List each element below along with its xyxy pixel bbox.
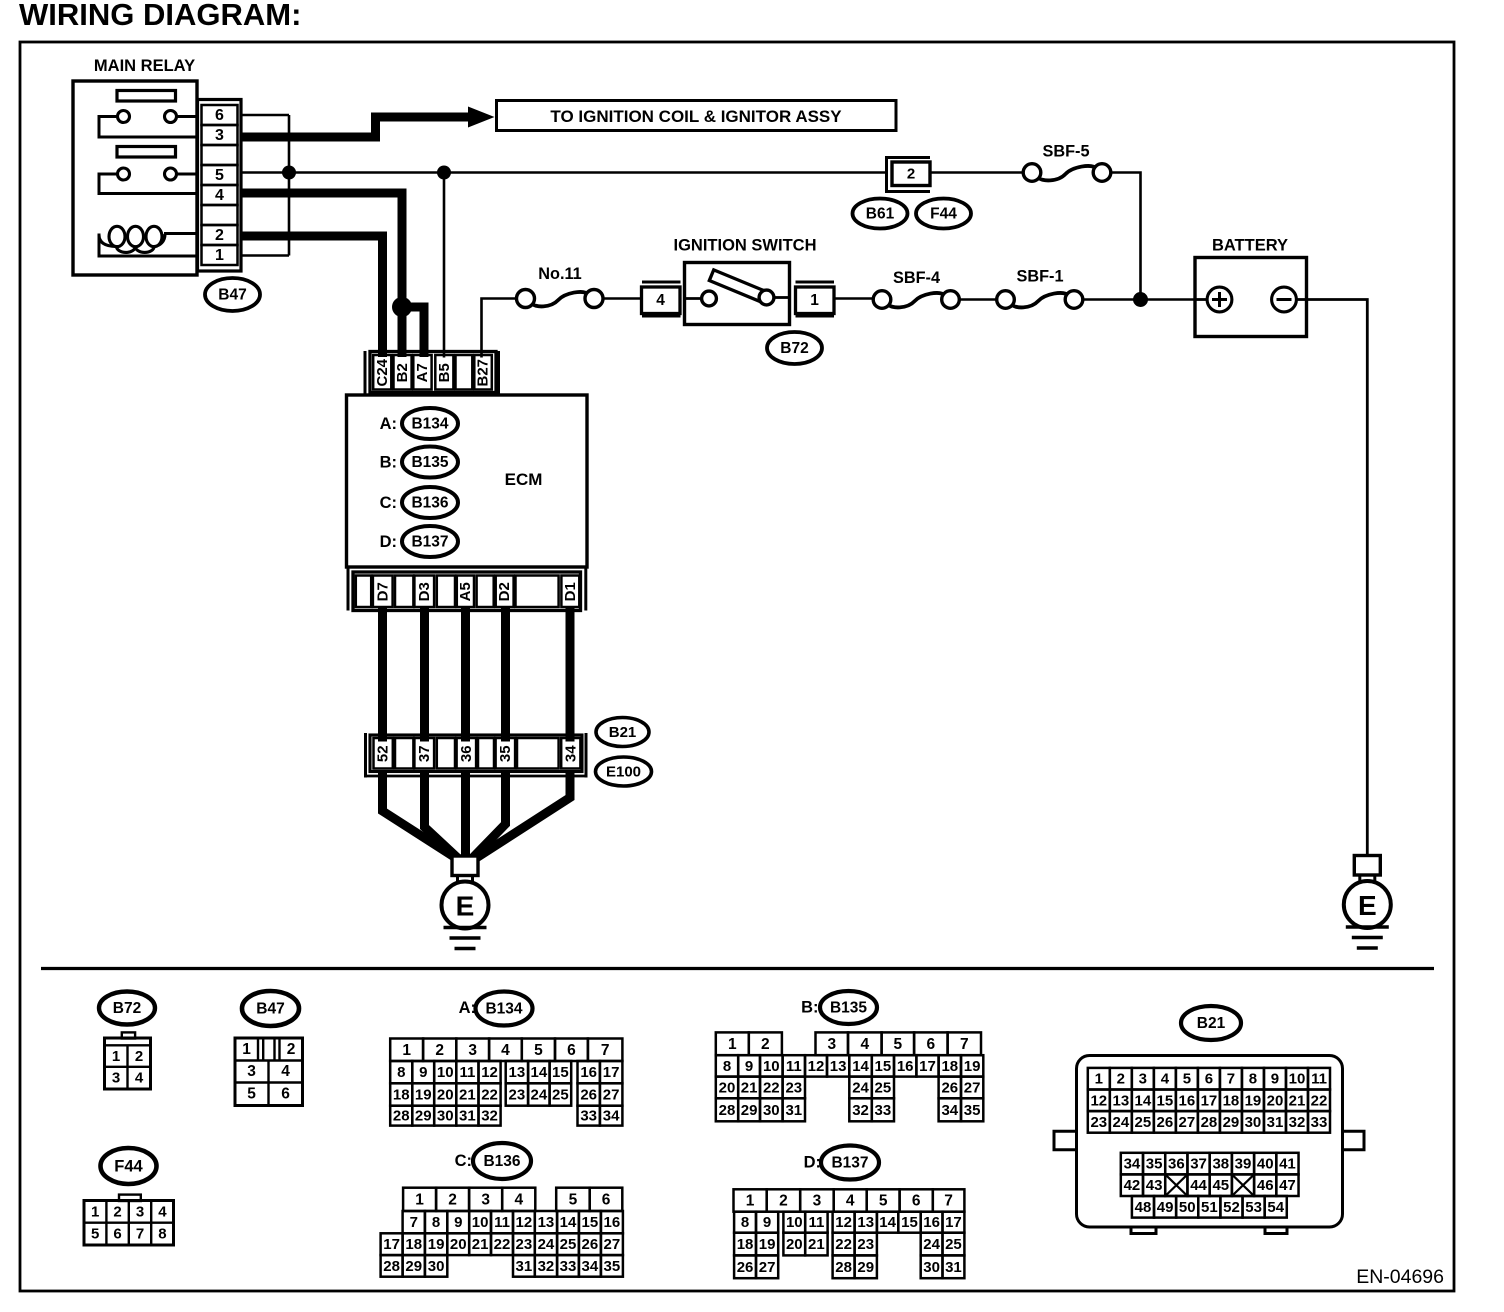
- pinout B72 connector: [105, 1032, 151, 1089]
- svg-text:52: 52: [1223, 1199, 1240, 1216]
- svg-text:6: 6: [602, 1191, 611, 1208]
- ECM connector ref B:B135: [380, 447, 458, 478]
- ignition switch B72 body: [685, 263, 790, 325]
- svg-text:52: 52: [375, 745, 392, 762]
- to-ignition-coil box: [497, 101, 897, 131]
- svg-text:33: 33: [560, 1258, 577, 1275]
- svg-text:27: 27: [759, 1259, 776, 1276]
- svg-text:SBF-5: SBF-5: [1042, 143, 1089, 161]
- svg-text:17: 17: [1201, 1092, 1218, 1109]
- svg-text:A:: A:: [380, 415, 397, 433]
- svg-text:20: 20: [437, 1087, 454, 1104]
- svg-text:3: 3: [481, 1191, 490, 1208]
- svg-text:27: 27: [604, 1236, 621, 1253]
- svg-text:ECM: ECM: [505, 470, 543, 489]
- ECM connector ref D:B137: [380, 526, 458, 557]
- svg-text:B47: B47: [256, 1001, 284, 1018]
- svg-text:20: 20: [1267, 1092, 1284, 1109]
- svg-text:4: 4: [158, 1203, 167, 1220]
- svg-text:6: 6: [215, 107, 224, 124]
- svg-text:33: 33: [580, 1108, 597, 1125]
- svg-text:33: 33: [1311, 1114, 1328, 1131]
- svg-text:7: 7: [1227, 1071, 1235, 1088]
- svg-text:25: 25: [552, 1087, 569, 1104]
- svg-text:MAIN RELAY: MAIN RELAY: [94, 57, 195, 75]
- svg-text:21: 21: [472, 1236, 489, 1253]
- svg-text:2: 2: [1117, 1071, 1125, 1088]
- svg-text:4: 4: [135, 1070, 144, 1087]
- ground wire 37: [425, 770, 462, 861]
- wire ECM pin to ground connector 1: [378, 607, 387, 742]
- relay contact pair 2: [118, 168, 198, 180]
- svg-text:B21: B21: [609, 724, 637, 741]
- wire SBF-5 down to junction: [1111, 173, 1141, 300]
- svg-text:D3: D3: [416, 582, 433, 601]
- svg-text:29: 29: [857, 1259, 874, 1276]
- svg-text:16: 16: [580, 1064, 597, 1081]
- svg-text:7: 7: [944, 1193, 953, 1210]
- svg-text:7: 7: [136, 1226, 144, 1243]
- ground wire 36: [461, 770, 470, 858]
- fuse SBF-4 label: [893, 269, 940, 287]
- svg-text:F44: F44: [930, 206, 957, 223]
- ground wire 35: [471, 770, 506, 860]
- svg-text:19: 19: [428, 1236, 445, 1253]
- svg-text:14: 14: [852, 1058, 869, 1075]
- ignition switch label: [674, 237, 817, 255]
- svg-text:21: 21: [741, 1079, 758, 1096]
- wire battery minus to ground: [1307, 300, 1368, 855]
- svg-text:B21: B21: [1197, 1015, 1226, 1032]
- wire pin5 long thin: [241, 171, 887, 174]
- connector 1 of ignition switch: [796, 282, 835, 316]
- svg-text:2: 2: [135, 1048, 143, 1065]
- svg-text:22: 22: [494, 1236, 511, 1253]
- pinout label B:B135: [801, 991, 877, 1024]
- svg-text:30: 30: [1245, 1114, 1262, 1131]
- svg-text:6: 6: [567, 1042, 576, 1059]
- svg-text:D:: D:: [804, 1154, 821, 1172]
- svg-text:23: 23: [785, 1079, 802, 1096]
- svg-text:9: 9: [745, 1058, 753, 1075]
- svg-text:5: 5: [569, 1191, 578, 1208]
- svg-text:17: 17: [603, 1064, 620, 1081]
- svg-text:9: 9: [454, 1214, 462, 1231]
- svg-text:34: 34: [562, 745, 579, 762]
- svg-text:24: 24: [531, 1087, 548, 1104]
- svg-text:1: 1: [112, 1048, 120, 1065]
- pinout B:B135 grid: [716, 1032, 984, 1121]
- svg-text:53: 53: [1245, 1199, 1262, 1216]
- svg-text:46: 46: [1257, 1177, 1274, 1194]
- section divider line: [41, 967, 1434, 970]
- svg-text:21: 21: [808, 1236, 825, 1253]
- svg-text:28: 28: [383, 1258, 400, 1275]
- svg-text:14: 14: [1135, 1092, 1152, 1109]
- svg-text:34: 34: [582, 1258, 599, 1275]
- svg-text:2: 2: [287, 1041, 296, 1058]
- svg-text:8: 8: [1249, 1071, 1257, 1088]
- wire ECM pin to ground connector 2: [420, 607, 429, 742]
- connector 2 box (B61/F44): [887, 158, 931, 192]
- svg-text:13: 13: [1112, 1092, 1129, 1109]
- connector ellipse E100: [596, 757, 652, 786]
- main relay label: [94, 57, 195, 75]
- pinout B21 top grid: [1088, 1068, 1330, 1133]
- main relay K1 box: [73, 81, 197, 275]
- svg-text:B47: B47: [218, 287, 246, 304]
- pinout B21 housing: [1054, 1056, 1364, 1234]
- svg-text:24: 24: [852, 1079, 869, 1096]
- svg-text:10: 10: [437, 1064, 454, 1081]
- svg-text:26: 26: [582, 1236, 599, 1253]
- pinout A:B134 grid: [390, 1039, 622, 1126]
- svg-text:11: 11: [494, 1214, 510, 1231]
- svg-text:D2: D2: [496, 582, 513, 601]
- svg-text:F44: F44: [114, 1158, 143, 1176]
- svg-text:12: 12: [835, 1214, 852, 1231]
- svg-text:B:: B:: [380, 454, 397, 472]
- svg-text:E100: E100: [606, 764, 641, 781]
- junction dot pin4 branch: [392, 297, 412, 317]
- svg-text:44: 44: [1190, 1177, 1207, 1194]
- fuse SBF-1 label: [1016, 268, 1063, 286]
- svg-text:24: 24: [1112, 1114, 1129, 1131]
- svg-text:2: 2: [215, 227, 224, 244]
- svg-text:39: 39: [1235, 1156, 1252, 1173]
- svg-text:13: 13: [538, 1214, 555, 1231]
- svg-text:25: 25: [875, 1079, 892, 1096]
- svg-text:9: 9: [763, 1214, 771, 1231]
- svg-text:51: 51: [1201, 1199, 1218, 1216]
- svg-text:5: 5: [215, 167, 224, 184]
- svg-text:3: 3: [112, 1070, 120, 1087]
- wire pin6-pin1 vertical link: [288, 115, 291, 256]
- junction dot battery feed: [1133, 292, 1148, 307]
- svg-text:E: E: [1358, 890, 1377, 921]
- svg-text:25: 25: [560, 1236, 577, 1253]
- relay contact 1 wire to pin 3: [99, 117, 197, 138]
- svg-text:C24: C24: [374, 358, 391, 386]
- svg-text:B137: B137: [411, 534, 448, 551]
- battery label: [1212, 237, 1288, 255]
- svg-text:B72: B72: [780, 340, 808, 357]
- wire SBF-1 to battery: [1083, 298, 1196, 301]
- svg-text:15: 15: [901, 1214, 918, 1231]
- svg-text:2: 2: [448, 1191, 457, 1208]
- relay coil: [99, 226, 197, 256]
- wire ECM pin to ground connector 3: [461, 607, 470, 742]
- svg-text:15: 15: [582, 1214, 599, 1231]
- svg-text:19: 19: [415, 1087, 432, 1104]
- svg-text:10: 10: [763, 1058, 780, 1075]
- svg-text:23: 23: [857, 1236, 874, 1253]
- svg-text:4: 4: [1161, 1071, 1170, 1088]
- svg-text:4: 4: [656, 292, 665, 309]
- svg-text:4: 4: [281, 1063, 290, 1080]
- svg-text:3: 3: [136, 1203, 144, 1220]
- svg-text:2: 2: [435, 1042, 444, 1059]
- connector 4 of ignition switch: [642, 282, 681, 316]
- svg-text:27: 27: [964, 1079, 981, 1096]
- svg-text:49: 49: [1157, 1199, 1174, 1216]
- svg-text:11: 11: [459, 1064, 475, 1081]
- svg-text:14: 14: [879, 1214, 896, 1231]
- svg-text:28: 28: [719, 1102, 736, 1119]
- svg-text:12: 12: [1090, 1092, 1107, 1109]
- svg-text:3: 3: [468, 1042, 477, 1059]
- wire pin1: [241, 254, 289, 257]
- svg-text:36: 36: [458, 745, 475, 762]
- svg-text:C:: C:: [380, 494, 397, 512]
- svg-text:34: 34: [603, 1108, 620, 1125]
- svg-text:A:: A:: [459, 999, 476, 1017]
- svg-text:B27: B27: [475, 359, 492, 387]
- svg-text:9: 9: [419, 1064, 427, 1081]
- svg-text:17: 17: [945, 1214, 962, 1231]
- svg-text:30: 30: [428, 1258, 445, 1275]
- svg-text:16: 16: [923, 1214, 940, 1231]
- svg-text:B134: B134: [485, 1001, 522, 1018]
- svg-text:1: 1: [810, 292, 819, 309]
- svg-text:18: 18: [393, 1087, 410, 1104]
- svg-text:2: 2: [761, 1036, 770, 1053]
- svg-text:10: 10: [786, 1214, 803, 1231]
- svg-text:2: 2: [907, 166, 915, 183]
- relay contact pair 1: [118, 111, 198, 123]
- fuse SBF-5 label: [1042, 143, 1089, 161]
- pinout F44 ellipse: [101, 1148, 157, 1184]
- svg-text:31: 31: [459, 1108, 476, 1125]
- junction dot pin5/B5: [437, 166, 451, 180]
- pinout D:B137 grid: [734, 1189, 965, 1278]
- svg-text:31: 31: [945, 1259, 962, 1276]
- svg-text:11: 11: [1311, 1071, 1327, 1088]
- ECM U1 box: [347, 395, 588, 567]
- svg-text:27: 27: [603, 1087, 620, 1104]
- svg-text:C:: C:: [455, 1152, 472, 1170]
- svg-text:29: 29: [415, 1108, 432, 1125]
- svg-text:4: 4: [514, 1191, 523, 1208]
- svg-text:13: 13: [509, 1064, 526, 1081]
- ground connector strip 52-34: [366, 733, 587, 778]
- ECM label: [505, 470, 543, 489]
- svg-text:26: 26: [941, 1079, 958, 1096]
- ECM connector ref C:B136: [380, 487, 458, 518]
- relay contact bar 1: [117, 91, 176, 102]
- svg-text:19: 19: [1245, 1092, 1262, 1109]
- svg-text:32: 32: [538, 1258, 555, 1275]
- wire pin6 to vertical: [241, 114, 289, 117]
- svg-text:18: 18: [1223, 1092, 1240, 1109]
- svg-text:15: 15: [552, 1064, 569, 1081]
- svg-text:28: 28: [393, 1108, 410, 1125]
- svg-text:1: 1: [415, 1191, 424, 1208]
- wire B5 vertical: [443, 173, 446, 358]
- svg-text:43: 43: [1146, 1177, 1163, 1194]
- svg-text:35: 35: [964, 1102, 981, 1119]
- svg-text:8: 8: [158, 1226, 166, 1243]
- wire SBF-4 to SBF-1: [959, 298, 997, 301]
- svg-text:28: 28: [835, 1259, 852, 1276]
- svg-text:20: 20: [450, 1236, 467, 1253]
- svg-text:32: 32: [852, 1102, 869, 1119]
- svg-text:19: 19: [964, 1058, 981, 1075]
- ellipse F44 top: [916, 199, 971, 229]
- svg-text:2: 2: [113, 1203, 121, 1220]
- svg-text:28: 28: [1201, 1114, 1218, 1131]
- svg-text:5: 5: [894, 1036, 903, 1053]
- svg-text:B2: B2: [394, 363, 411, 382]
- svg-text:23: 23: [516, 1236, 533, 1253]
- svg-text:31: 31: [516, 1258, 533, 1275]
- svg-text:3: 3: [813, 1193, 822, 1210]
- wire B27 vertical: [482, 299, 518, 358]
- svg-text:23: 23: [1090, 1114, 1107, 1131]
- svg-text:3: 3: [1139, 1071, 1147, 1088]
- svg-text:33: 33: [875, 1102, 892, 1119]
- svg-text:B136: B136: [411, 495, 448, 512]
- title text: [19, 0, 301, 32]
- svg-text:34: 34: [1124, 1156, 1141, 1173]
- svg-text:BATTERY: BATTERY: [1212, 237, 1288, 255]
- svg-text:26: 26: [737, 1259, 754, 1276]
- svg-text:48: 48: [1135, 1199, 1152, 1216]
- svg-text:No.11: No.11: [538, 265, 581, 283]
- svg-text:1: 1: [1095, 1071, 1103, 1088]
- svg-text:B135: B135: [830, 1000, 867, 1017]
- svg-text:54: 54: [1267, 1199, 1284, 1216]
- svg-text:8: 8: [432, 1214, 440, 1231]
- wire fuse to conn4: [603, 297, 642, 300]
- svg-text:B136: B136: [483, 1153, 520, 1170]
- svg-text:9: 9: [1271, 1071, 1279, 1088]
- svg-text:8: 8: [741, 1214, 749, 1231]
- svg-text:17: 17: [383, 1236, 400, 1253]
- fuse SBF-4: [873, 291, 959, 309]
- svg-text:6: 6: [113, 1226, 121, 1243]
- svg-text:31: 31: [785, 1102, 802, 1119]
- svg-text:25: 25: [1135, 1114, 1152, 1131]
- svg-text:17: 17: [919, 1058, 936, 1075]
- svg-text:32: 32: [1289, 1114, 1306, 1131]
- arrowhead to ignition coil box: [468, 107, 495, 128]
- svg-text:22: 22: [1311, 1092, 1328, 1109]
- svg-text:SBF-4: SBF-4: [893, 269, 940, 287]
- svg-text:30: 30: [763, 1102, 780, 1119]
- svg-text:1: 1: [215, 247, 224, 264]
- svg-text:6: 6: [281, 1086, 290, 1103]
- svg-text:13: 13: [830, 1058, 847, 1075]
- svg-text:30: 30: [923, 1259, 940, 1276]
- svg-text:19: 19: [759, 1236, 776, 1253]
- fuse SBF-5: [1023, 164, 1111, 182]
- svg-text:5: 5: [91, 1226, 99, 1243]
- svg-text:D7: D7: [374, 582, 391, 601]
- svg-text:29: 29: [405, 1258, 422, 1275]
- svg-text:B137: B137: [831, 1155, 868, 1172]
- svg-text:27: 27: [1179, 1114, 1196, 1131]
- ground E left: [442, 856, 489, 949]
- pinout B47 ellipse: [242, 991, 299, 1026]
- svg-text:10: 10: [1289, 1071, 1306, 1088]
- svg-text:D1: D1: [562, 582, 579, 601]
- svg-text:7: 7: [410, 1214, 418, 1231]
- svg-text:4: 4: [846, 1193, 855, 1210]
- svg-text:6: 6: [912, 1193, 921, 1210]
- svg-text:1: 1: [242, 1041, 251, 1058]
- svg-text:25: 25: [945, 1236, 962, 1253]
- svg-text:18: 18: [737, 1236, 754, 1253]
- svg-text:D:: D:: [380, 533, 397, 551]
- svg-text:18: 18: [405, 1236, 422, 1253]
- svg-text:36: 36: [1168, 1156, 1185, 1173]
- svg-text:A5: A5: [457, 582, 474, 601]
- pinout B21 ellipse: [1181, 1006, 1241, 1040]
- svg-text:26: 26: [580, 1087, 597, 1104]
- svg-text:16: 16: [897, 1058, 914, 1075]
- svg-text:16: 16: [604, 1214, 621, 1231]
- svg-text:22: 22: [763, 1079, 780, 1096]
- svg-text:TO IGNITION COIL & IGNITOR ASS: TO IGNITION COIL & IGNITOR ASSY: [550, 107, 842, 126]
- svg-text:1: 1: [746, 1193, 755, 1210]
- wire branch to A7: [402, 307, 424, 357]
- pinout B21 bottom grid: [1121, 1153, 1299, 1218]
- svg-text:4: 4: [501, 1042, 510, 1059]
- svg-text:5: 5: [534, 1042, 543, 1059]
- svg-text:35: 35: [497, 745, 514, 762]
- svg-text:B61: B61: [866, 206, 895, 223]
- svg-text:10: 10: [472, 1214, 489, 1231]
- pinout B47 connector: [235, 1038, 303, 1106]
- svg-text:11: 11: [808, 1214, 824, 1231]
- svg-text:37: 37: [1190, 1156, 1207, 1173]
- svg-text:12: 12: [481, 1064, 498, 1081]
- svg-text:B5: B5: [436, 363, 453, 382]
- svg-text:3: 3: [827, 1036, 836, 1053]
- svg-text:14: 14: [531, 1064, 548, 1081]
- svg-text:32: 32: [481, 1108, 498, 1125]
- svg-text:14: 14: [560, 1214, 577, 1231]
- wire pin3 thick to ignition coil: [241, 117, 471, 137]
- svg-text:5: 5: [247, 1086, 256, 1103]
- svg-text:A7: A7: [414, 363, 431, 382]
- svg-text:13: 13: [857, 1214, 874, 1231]
- ground wire 34: [476, 770, 571, 859]
- svg-text:37: 37: [416, 745, 433, 762]
- battery: [1195, 258, 1307, 337]
- svg-text:12: 12: [516, 1214, 533, 1231]
- svg-text:38: 38: [1212, 1156, 1229, 1173]
- svg-text:B135: B135: [411, 454, 448, 471]
- svg-text:24: 24: [538, 1236, 555, 1253]
- svg-text:45: 45: [1212, 1177, 1229, 1194]
- svg-text:3: 3: [247, 1063, 256, 1080]
- svg-text:3: 3: [215, 127, 224, 144]
- svg-text:35: 35: [604, 1258, 621, 1275]
- svg-text:B134: B134: [411, 416, 448, 433]
- svg-text:4: 4: [860, 1036, 869, 1053]
- pinout label A:B134: [459, 992, 533, 1026]
- svg-text:8: 8: [397, 1064, 405, 1081]
- wire conn1 to SBF-4: [834, 297, 874, 300]
- pinout F44 connector: [84, 1195, 174, 1245]
- ECM connector ref A:B134: [380, 408, 458, 439]
- wire 2box right to SBF-5: [931, 171, 1024, 174]
- fuse No.11: [517, 290, 604, 308]
- svg-text:6: 6: [1205, 1071, 1213, 1088]
- wire ECM pin to ground connector 5: [566, 607, 575, 742]
